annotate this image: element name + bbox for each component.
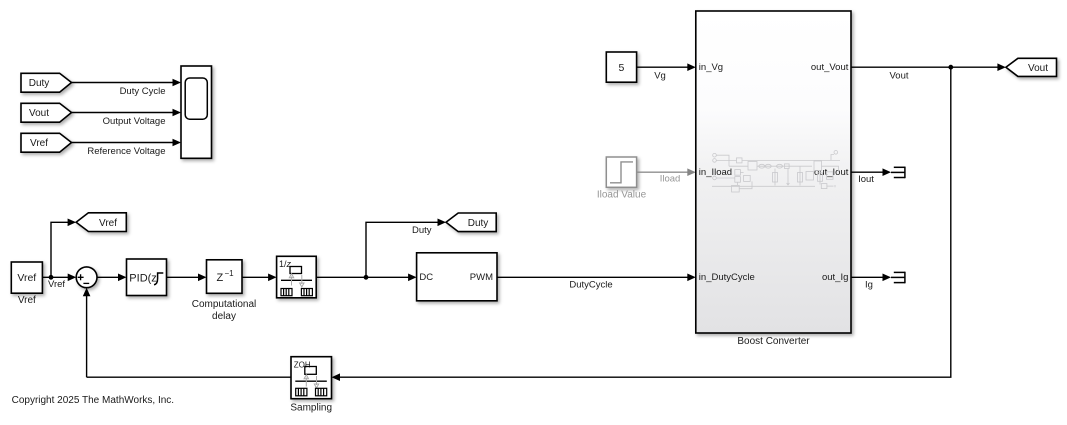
svg-text:Iload Value: Iload Value: [597, 190, 647, 201]
svg-text:Vref: Vref: [18, 295, 36, 306]
svg-text:Boost Converter: Boost Converter: [737, 336, 810, 347]
wire sum to PID: [97, 276, 119, 278]
scope block: [181, 66, 212, 158]
wire Vout to Scope: [72, 112, 174, 114]
wire junction up to goto Duty: [366, 222, 439, 277]
svg-text:PID(z: PID(z: [129, 272, 157, 284]
svg-text:in_Vg: in_Vg: [699, 62, 723, 73]
goto Vref: [76, 213, 126, 232]
wire PID to Z-1: [167, 276, 200, 278]
svg-text:Vout: Vout: [29, 108, 49, 119]
from tag Duty: [21, 73, 72, 92]
node junction Vout: [948, 65, 953, 70]
wire PWM to boost in_DutyCycle: [497, 276, 688, 278]
svg-text:DC: DC: [419, 272, 433, 283]
svg-text:Vref: Vref: [17, 272, 36, 284]
wire rate transition to DC/PWM: [316, 276, 409, 278]
svg-text:Vout: Vout: [889, 71, 908, 82]
terminator Ig: [891, 272, 905, 284]
wire feedback Vout down and to Sampling: [339, 67, 951, 377]
inport Vref: [11, 262, 42, 306]
svg-text:Vg: Vg: [654, 70, 666, 81]
from tag Vout: [21, 103, 72, 122]
wire out_Ig to terminator: [851, 276, 884, 278]
terminator Iout: [891, 167, 905, 179]
svg-text:PWM: PWM: [470, 272, 493, 283]
svg-text:Duty: Duty: [29, 78, 50, 89]
svg-text:ZOH: ZOH: [294, 360, 311, 369]
svg-text:Iout: Iout: [858, 174, 874, 185]
wire feedback up into sum: [86, 296, 88, 378]
node junction Vref: [49, 275, 54, 280]
node junction duty: [364, 275, 369, 280]
goto Duty: [446, 213, 496, 232]
wire out_Iout to terminator: [851, 171, 884, 173]
svg-text:Ig: Ig: [865, 280, 873, 291]
wire Duty to Scope: [72, 82, 174, 84]
svg-text:5: 5: [618, 62, 624, 74]
wire step to boost in_Iload: [637, 171, 689, 173]
svg-text:Duty: Duty: [468, 218, 489, 229]
svg-text:Reference Voltage: Reference Voltage: [87, 146, 165, 157]
wire Sampling to feedback left: [87, 376, 291, 378]
svg-text:delay: delay: [212, 311, 236, 322]
sampling ZOH block: [290, 357, 332, 414]
svg-text:Copyright 2025 The MathWorks,: Copyright 2025 The MathWorks, Inc.: [12, 395, 175, 406]
svg-text:in_DutyCycle: in_DutyCycle: [699, 272, 755, 283]
wire Z-1 to rate transition: [242, 276, 269, 278]
PID controller block: [127, 259, 167, 296]
wire junction up to goto Vref: [51, 222, 69, 277]
svg-text:Duty: Duty: [412, 225, 432, 236]
svg-text:Computational: Computational: [192, 299, 256, 310]
subsystem Boost Converter: [696, 11, 851, 347]
svg-text:Sampling: Sampling: [290, 403, 332, 414]
svg-text:Vref: Vref: [30, 138, 48, 149]
goto Vout: [1006, 58, 1057, 76]
svg-text:Vout: Vout: [1028, 63, 1048, 74]
svg-text:−1: −1: [225, 269, 235, 278]
wire Vref inport to sum: [42, 276, 68, 278]
svg-text:Vref: Vref: [48, 279, 65, 290]
svg-text:Iload: Iload: [660, 174, 681, 185]
wire out_Vout to goto Vout: [851, 66, 998, 68]
svg-text:Vref: Vref: [99, 218, 117, 229]
sum block: [76, 267, 97, 288]
constant 5: [606, 52, 636, 82]
svg-text:Z: Z: [217, 272, 224, 284]
svg-text:out_Ig: out_Ig: [822, 272, 848, 283]
step block Iload Value: [597, 157, 647, 201]
wire constant to boost in_Vg: [637, 66, 689, 68]
PWM generator block DC/PWM: [417, 253, 497, 301]
delay block Z-1: [192, 260, 256, 322]
svg-text:Output Voltage: Output Voltage: [103, 116, 166, 127]
svg-text:DutyCycle: DutyCycle: [569, 280, 612, 291]
rate transition 1/z block: [277, 256, 317, 298]
wire Vref to Scope: [72, 142, 174, 144]
from tag Vref: [21, 133, 72, 152]
svg-text:Duty Cycle: Duty Cycle: [120, 86, 166, 97]
svg-text:out_Vout: out_Vout: [811, 62, 849, 73]
faint internal circuit art: [712, 151, 840, 193]
